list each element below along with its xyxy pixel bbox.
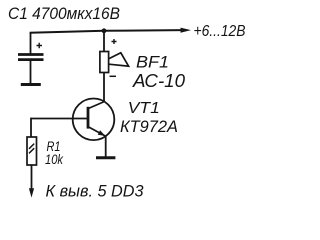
wire capacitor to ground — [30, 61, 32, 84]
resistor R1 body — [27, 137, 37, 165]
arrowhead to pin 5 DD3 — [29, 188, 34, 197]
wire base lead — [31, 118, 88, 120]
wire capacitor branch to top rail — [30, 33, 32, 55]
capacitor C1 plus mark — [37, 43, 43, 48]
svg-text:КТ972А: КТ972А — [120, 117, 178, 136]
ground under C1 — [21, 83, 41, 86]
wire top rail — [30, 30, 182, 33]
svg-text:+6...12В: +6...12В — [194, 23, 246, 40]
svg-text:АС-10: АС-10 — [132, 71, 185, 91]
BF1 plus mark — [112, 39, 117, 44]
wire rail to BF1 — [103, 31, 105, 52]
transistor VT1 collector line — [88, 102, 104, 109]
sound capsule BF1 flag — [109, 53, 129, 66]
svg-text:10k: 10k — [45, 151, 64, 167]
wire R1 to output arrow — [31, 165, 33, 189]
wire BF1 to collector — [103, 73, 105, 102]
transistor VT1 circle — [73, 99, 115, 141]
svg-text:К выв. 5 DD3: К выв. 5 DD3 — [46, 182, 145, 201]
node junction dot — [102, 28, 107, 33]
ground under emitter — [96, 156, 115, 159]
svg-text:BF1: BF1 — [136, 53, 169, 72]
svg-text:С1 4700мкх16В: С1 4700мкх16В — [8, 4, 120, 23]
wire base to R1 — [30, 118, 32, 137]
arrowhead to supply rail — [181, 28, 192, 33]
resistor R1 power marks — [29, 144, 34, 154]
sound capsule BF1 body — [100, 52, 109, 73]
transistor VT1 emitter arrowhead — [98, 130, 106, 136]
transistor VT1 base bar — [87, 107, 90, 129]
wire emitter to ground — [105, 136, 107, 157]
transistor VT1 emitter line — [88, 127, 106, 137]
BF1 minus mark — [110, 75, 117, 77]
capacitor C1 — [18, 55, 44, 60]
svg-text:VT1: VT1 — [128, 100, 160, 117]
